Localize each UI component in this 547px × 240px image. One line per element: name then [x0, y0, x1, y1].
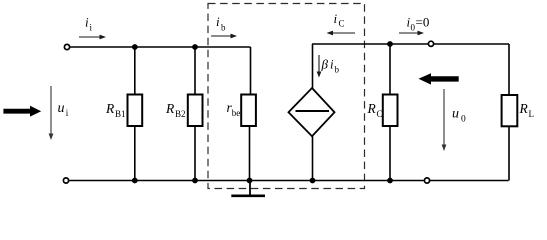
svg-text:R: R: [105, 101, 115, 116]
wire bottom rail: [69, 180, 509, 182]
svg-text:R: R: [367, 101, 377, 116]
label i_i with arrow: [79, 15, 106, 40]
svg-text:=0: =0: [416, 15, 430, 30]
input terminal bottom (open circle): [63, 178, 68, 183]
svg-text:0: 0: [461, 115, 466, 125]
svg-text:i: i: [216, 14, 220, 29]
svg-text:C: C: [377, 109, 383, 119]
label R_L: [519, 101, 535, 119]
svg-text:i: i: [334, 11, 338, 26]
junction node collector bottom: [387, 178, 393, 184]
svg-text:i: i: [85, 15, 89, 30]
output terminal bottom (open circle): [424, 178, 429, 183]
label R_B1: [105, 101, 126, 119]
resistor R_L: [502, 44, 518, 181]
input signal thick arrow: [3, 106, 41, 117]
svg-text:β: β: [321, 57, 329, 72]
wire top-right rail: [312, 43, 509, 45]
junction node B2 bottom: [192, 178, 198, 184]
label u_0 with arrow: [442, 89, 466, 151]
resistor r_be: [241, 47, 256, 181]
output terminal top (open circle): [428, 41, 433, 46]
output signal thick arrow (pointing left): [419, 73, 459, 84]
svg-text:C: C: [339, 19, 345, 29]
label i_b with arrow: [211, 14, 237, 38]
ground: [231, 181, 265, 196]
svg-text:b: b: [221, 23, 226, 33]
svg-text:B1: B1: [115, 109, 126, 119]
svg-text:u: u: [58, 101, 65, 116]
resistor R_C: [383, 44, 398, 181]
resistor R_B1: [128, 47, 143, 181]
svg-text:R: R: [165, 101, 175, 116]
svg-text:i: i: [330, 57, 334, 72]
junction node collector top: [387, 41, 393, 47]
junction node B1 top: [132, 44, 138, 50]
controlled current source beta*ib: [289, 44, 335, 181]
resistor R_B2: [188, 47, 203, 181]
dashed box transistor model boundary: [208, 4, 365, 189]
svg-text:B2: B2: [175, 109, 186, 119]
svg-text:b: b: [335, 65, 340, 75]
svg-text:u: u: [452, 107, 459, 122]
wire top-left rail: [70, 46, 251, 48]
junction node B2 top: [192, 44, 198, 50]
label u_i with arrow: [49, 86, 69, 140]
label i_0=0 with arrow: [399, 15, 429, 36]
junction node B1 bottom: [132, 178, 138, 184]
svg-text:be: be: [232, 108, 241, 118]
svg-text:R: R: [519, 101, 529, 116]
junction node emitter bottom: [247, 178, 253, 184]
label R_C: [367, 101, 383, 119]
label i_C with arrow (pointing left): [327, 11, 356, 35]
label R_B2: [165, 101, 186, 119]
svg-text:L: L: [529, 109, 535, 119]
label beta i_b with down arrow: [317, 55, 340, 78]
junction node source bottom: [310, 178, 316, 184]
label r_be: [227, 100, 241, 118]
input terminal top (open circle): [64, 44, 69, 49]
